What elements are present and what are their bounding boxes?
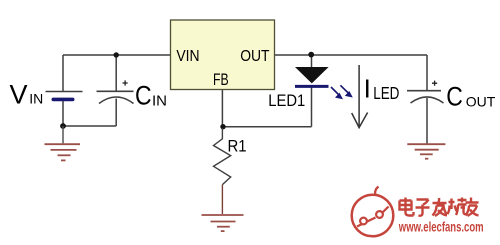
svg-text:OUT: OUT (466, 93, 496, 109)
svg-text:R1: R1 (228, 138, 247, 156)
svg-text:C: C (446, 82, 463, 112)
svg-text:IN: IN (29, 91, 43, 107)
svg-text:I: I (364, 74, 371, 104)
svg-text:LED: LED (373, 84, 399, 103)
svg-text:IN: IN (152, 92, 167, 109)
svg-text:VIN: VIN (176, 47, 199, 65)
svg-text:LED1: LED1 (268, 92, 305, 110)
svg-text:C: C (135, 81, 152, 111)
svg-text:OUT: OUT (240, 47, 269, 65)
svg-text:www.elecfans.com: www.elecfans.com (398, 219, 484, 235)
svg-text:V: V (10, 80, 28, 110)
svg-text:FB: FB (213, 71, 229, 89)
